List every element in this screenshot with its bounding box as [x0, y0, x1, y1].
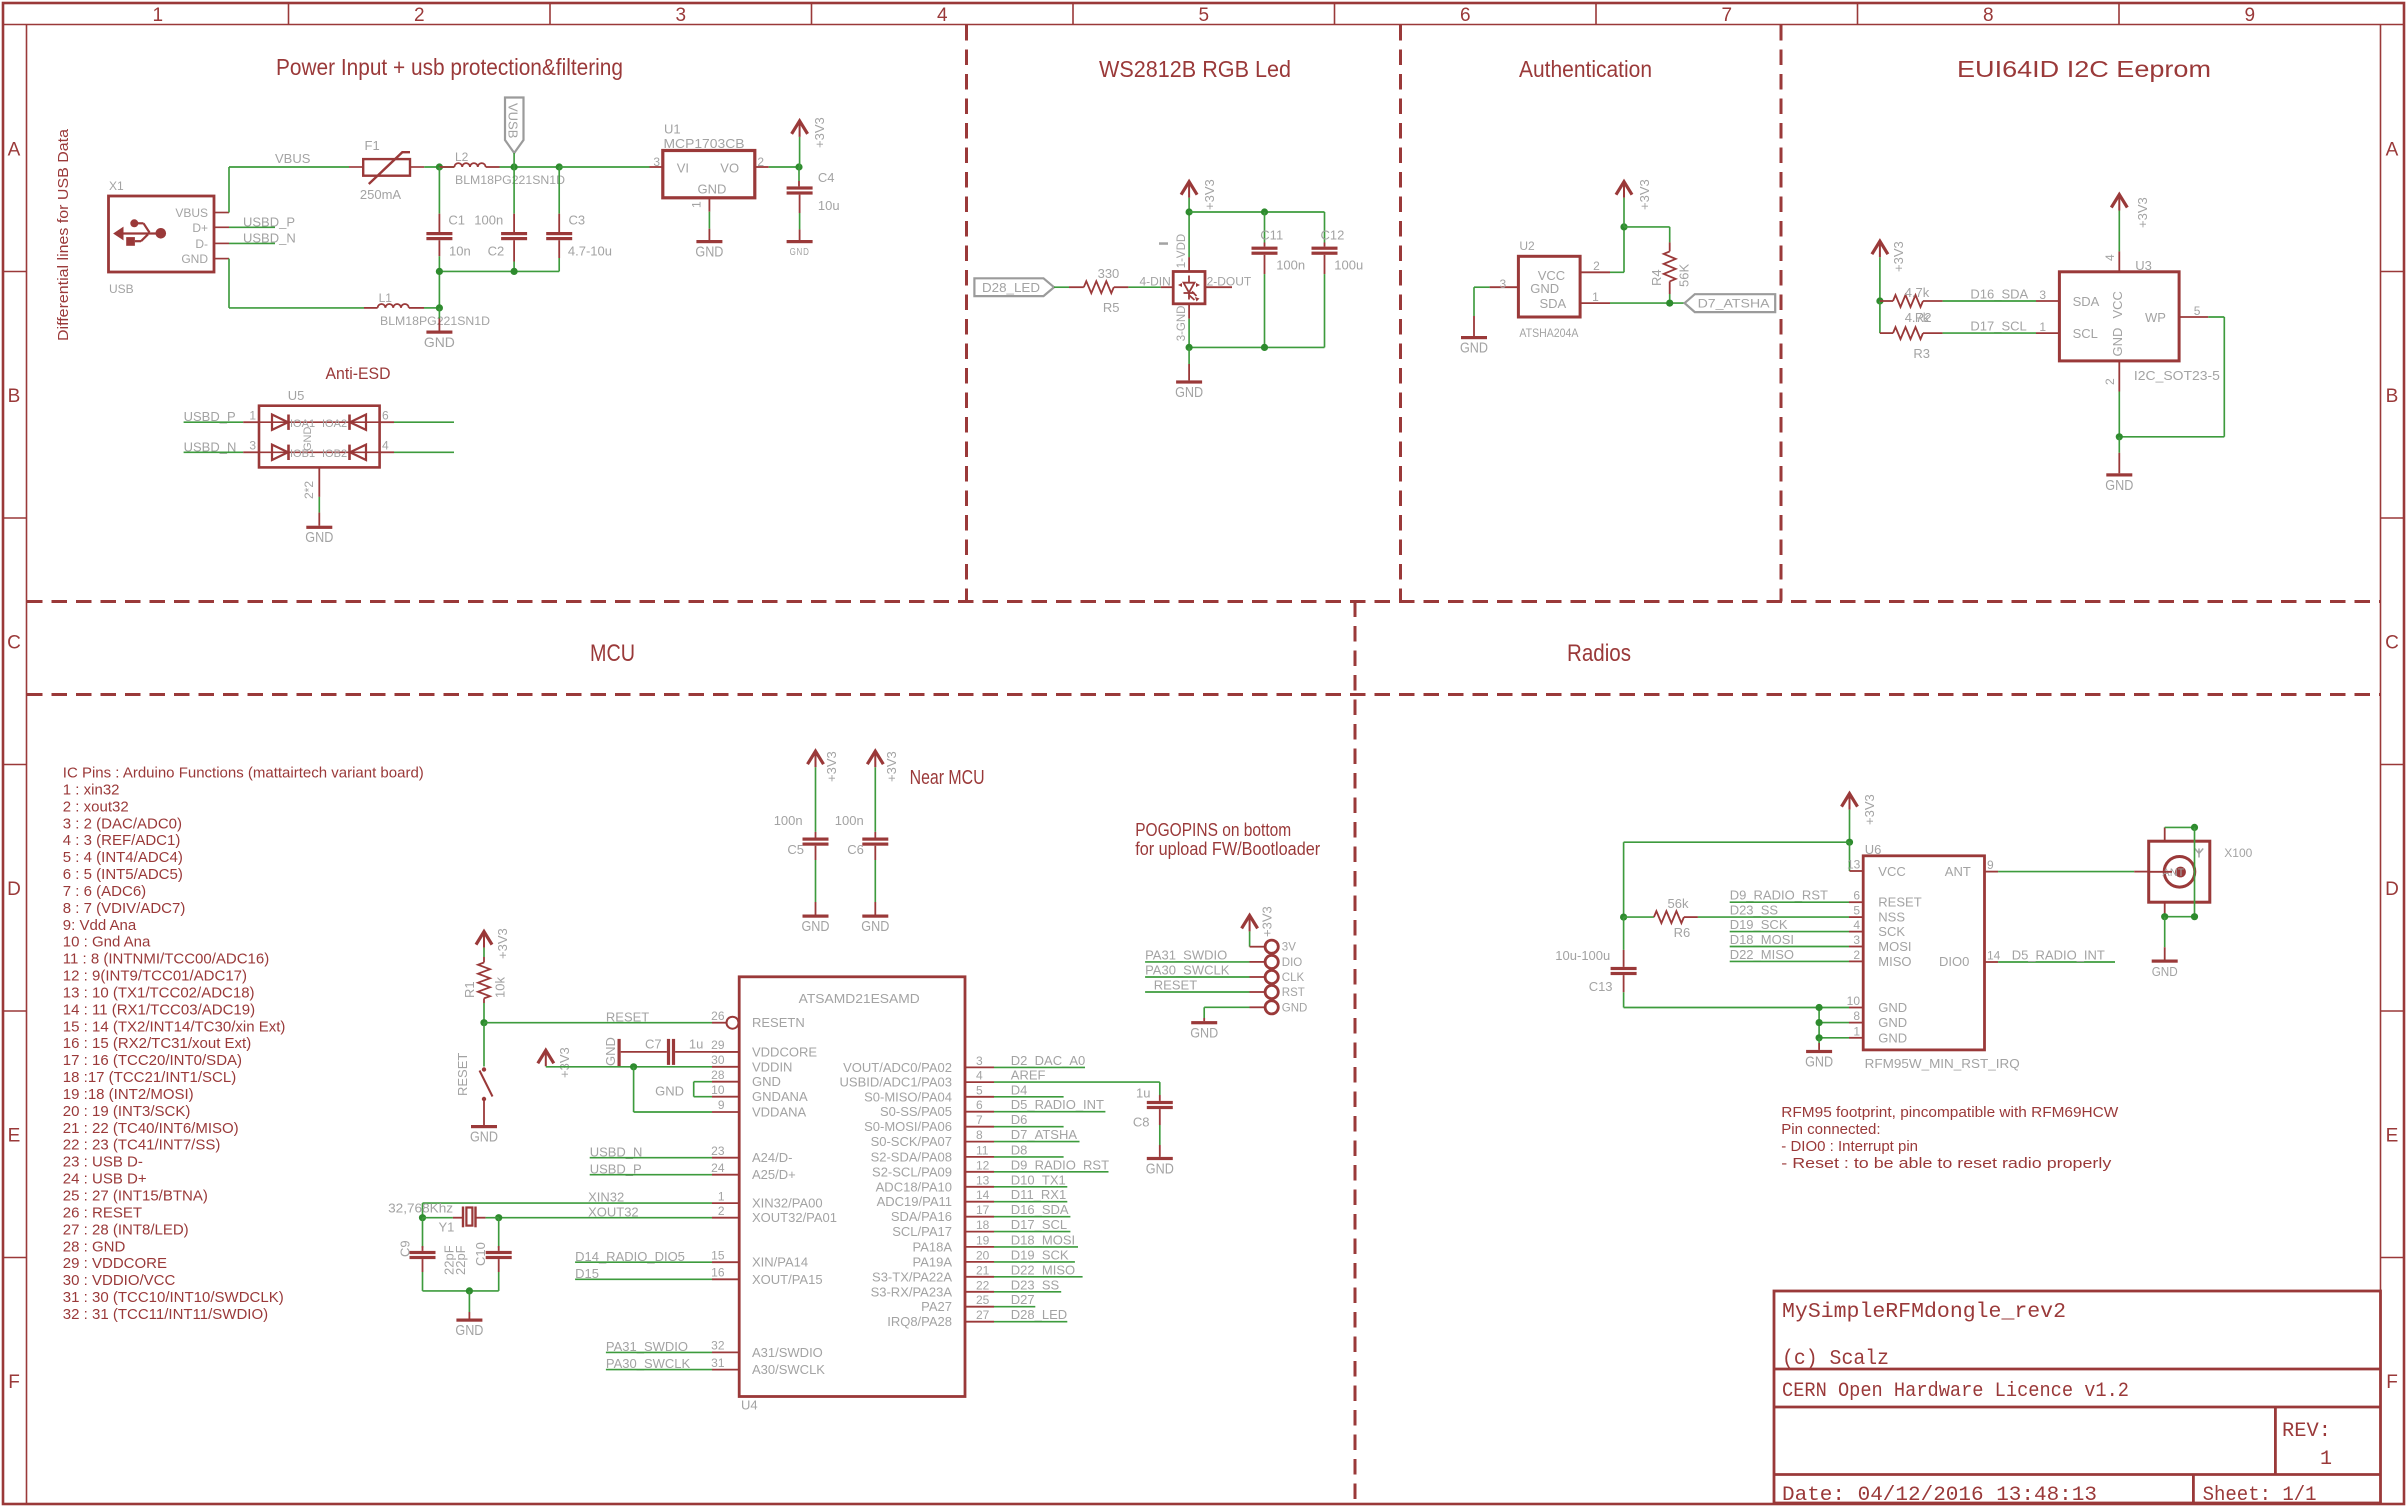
svg-text:Near MCU: Near MCU — [910, 767, 985, 789]
MCU U4 box — [739, 977, 965, 1397]
svg-text:BLM18PG221SN1D: BLM18PG221SN1D — [455, 173, 565, 187]
svg-text:C: C — [2385, 632, 2399, 653]
svg-text:2: 2 — [2103, 378, 2117, 385]
crystal Y1 — [423, 1217, 453, 1219]
junction U6 vcc — [1846, 839, 1853, 846]
svg-text:D9_RADIO_RST: D9_RADIO_RST — [1011, 1157, 1109, 1172]
svg-text:10: 10 — [1847, 994, 1861, 1008]
ground GND (C8) — [1147, 1157, 1173, 1160]
wire D6 — [994, 1126, 1064, 1128]
wire D2_DAC_A0 — [994, 1066, 1085, 1068]
svg-text:3: 3 — [675, 5, 686, 26]
svg-text:D+: D+ — [192, 221, 208, 235]
wire USBD_P (mcu) — [590, 1174, 712, 1176]
svg-text:U1: U1 — [664, 122, 681, 137]
svg-text:D22_MISO: D22_MISO — [1730, 947, 1794, 962]
U3 pin 5 WP wire — [2179, 316, 2208, 318]
svg-text:1 : xin32: 1 : xin32 — [63, 781, 120, 798]
wire D8 — [994, 1156, 1064, 1158]
svg-text:3: 3 — [2039, 288, 2046, 302]
svg-text:12: 12 — [976, 1158, 990, 1172]
svg-text:IRQ8/PA28: IRQ8/PA28 — [887, 1314, 952, 1329]
svg-text:31: 31 — [711, 1356, 725, 1370]
svg-text:NSS: NSS — [1878, 910, 1905, 925]
ground GND (crystal) — [456, 1319, 482, 1322]
svg-text:D7_ATSHA: D7_ATSHA — [1011, 1127, 1078, 1142]
svg-text:R6: R6 — [1674, 925, 1691, 940]
power +3V3 (C6) — [867, 751, 883, 764]
ESD array U5 box — [259, 406, 380, 468]
svg-text:ANT: ANT — [1945, 864, 1971, 879]
svg-text:17 : 16 (TCC20/INT0/SDA): 17 : 16 (TCC20/INT0/SDA) — [63, 1052, 242, 1069]
capacitor C10 — [498, 1218, 500, 1248]
ground GND (L1) — [426, 331, 452, 334]
wire AREF — [994, 1081, 1160, 1083]
capacitor C12 — [1324, 212, 1326, 243]
junction C3 node — [556, 163, 563, 170]
svg-text:U5: U5 — [288, 388, 305, 403]
svg-text:VOUT/ADC0/PA02: VOUT/ADC0/PA02 — [843, 1060, 952, 1075]
svg-text:18: 18 — [976, 1218, 990, 1232]
svg-text:3: 3 — [653, 155, 660, 169]
wire D7_ATSHA — [994, 1141, 1080, 1143]
junction LED gnd — [1186, 344, 1193, 351]
junction C11 bottom — [1261, 344, 1268, 351]
ground GND (U6) — [1806, 1050, 1832, 1053]
section divider vertical mcu/radios — [1354, 602, 1357, 1505]
wire D17_SCL — [1943, 332, 2036, 334]
svg-text:C3: C3 — [569, 213, 586, 228]
svg-text:6: 6 — [382, 409, 389, 423]
svg-text:RFM95W_MIN_RST_IRQ: RFM95W_MIN_RST_IRQ — [1865, 1056, 2020, 1071]
svg-text:XOUT32/PA01: XOUT32/PA01 — [752, 1210, 837, 1225]
svg-text:U2: U2 — [1519, 239, 1535, 253]
wire pogo GND — [1250, 1006, 1265, 1008]
wire D19_SCK — [994, 1261, 1075, 1263]
wire USBD_P stub — [229, 226, 275, 228]
svg-text:+3V3: +3V3 — [557, 1047, 572, 1078]
svg-text:4: 4 — [2103, 254, 2117, 261]
wire D9_RADIO_RST (radio) — [1730, 901, 1849, 903]
wire +3V3 to R4 — [1624, 226, 1670, 228]
power +3V3 (pogo) — [1242, 915, 1258, 928]
svg-text:VDDIN: VDDIN — [752, 1059, 792, 1074]
svg-text:DIO0: DIO0 — [1939, 954, 1969, 969]
junction RESET — [480, 1019, 487, 1026]
capacitor C9 — [422, 1218, 424, 1248]
svg-text:ANT: ANT — [2162, 867, 2184, 879]
section divider horizontal upper — [27, 600, 2380, 603]
wire ANT into X100 — [2134, 871, 2149, 873]
junction U6 gnd 8 — [1816, 1019, 1823, 1026]
wire D22_MISO (radio) — [1730, 960, 1849, 962]
junction VBUS C1 — [436, 163, 443, 170]
wire U5 right B — [380, 451, 394, 453]
svg-text:A: A — [8, 139, 21, 160]
svg-text:25: 25 — [976, 1293, 990, 1307]
wire crystal gnd down — [468, 1291, 470, 1312]
svg-text:GND: GND — [1878, 1000, 1907, 1015]
svg-text:31 : 30 (TCC10/INT10/SWDCLK): 31 : 30 (TCC10/INT10/SWDCLK) — [63, 1289, 284, 1306]
svg-text:14 : 11 (RX1/TCC03/ADC19): 14 : 11 (RX1/TCC03/ADC19) — [63, 1001, 255, 1018]
capacitor C6 — [874, 832, 876, 838]
svg-text:SDA/PA16: SDA/PA16 — [891, 1209, 952, 1224]
svg-text:B: B — [8, 386, 21, 407]
svg-text:A25/D+: A25/D+ — [752, 1167, 796, 1182]
wire VBUS vertical from X1 — [228, 167, 230, 213]
svg-text:1u: 1u — [689, 1037, 703, 1052]
svg-text:MCU: MCU — [590, 640, 635, 667]
svg-text:XOUT/PA15: XOUT/PA15 — [752, 1272, 823, 1287]
wire PA31_SWDIO (mcu) — [606, 1351, 712, 1353]
svg-text:SCL/PA17: SCL/PA17 — [892, 1224, 952, 1239]
svg-text:28 : GND: 28 : GND — [63, 1238, 126, 1255]
svg-text:Pin connected:: Pin connected: — [1781, 1121, 1880, 1138]
svg-text:GND: GND — [1805, 1053, 1833, 1070]
svg-text:U3: U3 — [2135, 258, 2152, 273]
svg-text:1: 1 — [1853, 1024, 1860, 1038]
wire U6 gnd down — [1818, 1038, 1820, 1043]
svg-text:1: 1 — [2320, 1448, 2332, 1471]
svg-text:+3V3: +3V3 — [884, 751, 899, 782]
junction VDDIN/VDDANA — [630, 1063, 637, 1070]
wire VCC bus left — [1624, 841, 1850, 843]
svg-text:32: 32 — [711, 1339, 725, 1353]
svg-text:+3V3: +3V3 — [1862, 794, 1877, 825]
svg-text:VO: VO — [720, 161, 739, 176]
svg-text:GND: GND — [790, 246, 810, 258]
svg-text:1: 1 — [249, 409, 256, 423]
svg-text:22pF: 22pF — [453, 1245, 468, 1275]
capacitor C1 — [438, 167, 440, 214]
power +3V3 (R1) — [476, 932, 492, 945]
ground GND (pogo) — [1191, 1021, 1217, 1024]
junction crystal right — [495, 1214, 502, 1221]
svg-text:15: 15 — [711, 1248, 725, 1262]
svg-text:9: 9 — [1987, 858, 1994, 872]
resistor R1 — [483, 957, 485, 963]
svg-text:3: 3 — [1500, 277, 1507, 291]
svg-text:GND: GND — [455, 1322, 483, 1339]
svg-text:D16_SDA: D16_SDA — [1970, 287, 2028, 302]
svg-text:Authentication: Authentication — [1519, 56, 1652, 82]
wire R4 to SDA — [1669, 281, 1671, 294]
resistor R5 — [1084, 281, 1114, 293]
svg-text:D17_SCL: D17_SCL — [1011, 1217, 1067, 1232]
svg-text:+3V3: +3V3 — [1891, 241, 1906, 272]
svg-text:C7: C7 — [645, 1037, 662, 1052]
svg-text:SCL: SCL — [2073, 326, 2098, 341]
svg-text:C4: C4 — [818, 170, 835, 185]
svg-text:DIO: DIO — [1282, 957, 1303, 969]
svg-text:11 : 8 (INTNMI/TCC00/ADC16): 11 : 8 (INTNMI/TCC00/ADC16) — [63, 951, 269, 968]
svg-text:4: 4 — [382, 439, 389, 453]
svg-text:IOB2: IOB2 — [322, 448, 347, 460]
svg-text:VCC: VCC — [2110, 291, 2125, 318]
svg-text:GND: GND — [861, 918, 889, 935]
svg-text:D23_SS: D23_SS — [1730, 903, 1779, 918]
svg-text:EUI64ID I2C Eeprom: EUI64ID I2C Eeprom — [1957, 56, 2211, 82]
junction U6 gnd 1 — [1816, 1034, 1823, 1041]
USB connector X1 trident icon — [114, 219, 166, 246]
svg-text:F1: F1 — [365, 138, 380, 153]
U4 right pin stubs and numbers — [965, 1066, 994, 1068]
svg-text:D6: D6 — [1011, 1112, 1028, 1127]
wire USBD_P to U5 — [184, 421, 244, 423]
wire VDDIN — [546, 1066, 712, 1068]
svg-text:1: 1 — [718, 1189, 725, 1203]
svg-text:VCC: VCC — [1878, 864, 1905, 879]
wire D28_LED to R5 — [1054, 286, 1069, 288]
svg-text:C12: C12 — [1321, 228, 1345, 243]
wire D23_SS (radio) — [1698, 916, 1849, 918]
wire D4 — [994, 1096, 1064, 1098]
radio module U6 box — [1863, 856, 1984, 1050]
svg-text:Anti-ESD: Anti-ESD — [326, 364, 391, 383]
svg-text:D17_SCL: D17_SCL — [1970, 319, 2026, 334]
svg-text:U6: U6 — [1865, 842, 1882, 857]
ground GND (X100) — [2152, 960, 2178, 963]
wire pogo RST — [1145, 991, 1249, 993]
U6 DIO0 pin wire — [1985, 961, 1999, 963]
ground GND (C5) — [803, 915, 829, 918]
svg-text:Power Input + usb protection&f: Power Input + usb protection&filtering — [276, 54, 623, 80]
U3 pin 4 VCC wire — [2118, 251, 2120, 271]
svg-text:ADC19/PA11: ADC19/PA11 — [877, 1194, 952, 1209]
svg-text:VDDCORE: VDDCORE — [752, 1044, 817, 1059]
svg-text:L1: L1 — [379, 291, 393, 305]
svg-text:R1: R1 — [462, 981, 477, 998]
wire D16_SDA — [1943, 300, 2036, 302]
svg-text:D19_SCK: D19_SCK — [1730, 917, 1788, 932]
svg-text:10u-100u: 10u-100u — [1555, 948, 1610, 963]
capacitor C8 — [1159, 1082, 1161, 1095]
junction X100 bottom 1 — [2161, 913, 2168, 920]
U5 diodes row A — [259, 421, 380, 423]
wire L2 to VUSB junction — [500, 166, 560, 168]
svg-text:100n: 100n — [774, 813, 803, 828]
ground GND (U3) — [2106, 473, 2132, 476]
svg-text:4 : 3 (REF/ADC1): 4 : 3 (REF/ADC1) — [63, 832, 181, 849]
title block frame — [1774, 1291, 2381, 1503]
svg-text:REV:: REV: — [2282, 1420, 2331, 1443]
wire USBD_N to U5 — [184, 451, 244, 453]
junction U2 vcc — [1620, 223, 1627, 230]
svg-text:C5: C5 — [787, 842, 804, 857]
svg-text:C2: C2 — [488, 244, 505, 259]
svg-text:14: 14 — [1987, 949, 2001, 963]
wire +3V3 bus to C11 C12 — [1189, 211, 1324, 213]
svg-text:22: 22 — [976, 1278, 990, 1292]
svg-text:26: 26 — [711, 1009, 725, 1023]
svg-text:7: 7 — [976, 1113, 983, 1127]
power flag VUSB — [505, 98, 524, 154]
svg-text:E: E — [8, 1125, 21, 1146]
U6 ANT pin wire — [1985, 871, 1999, 873]
X100 antenna glyph — [2195, 849, 2203, 858]
svg-text:- Reset : to be able to reset: - Reset : to be able to reset radio prop… — [1781, 1155, 2112, 1172]
junction SDA R4 — [1666, 300, 1673, 307]
svg-text:2: 2 — [414, 5, 425, 26]
svg-text:3: 3 — [976, 1054, 983, 1068]
svg-text:C13: C13 — [1589, 979, 1613, 994]
svg-text:20: 20 — [976, 1248, 990, 1262]
svg-text:4: 4 — [976, 1069, 983, 1083]
wire U5 GND pin — [318, 467, 320, 497]
svg-text:WP: WP — [2145, 310, 2166, 325]
svg-text:R4: R4 — [1649, 269, 1664, 286]
svg-text:GND: GND — [1530, 281, 1559, 296]
svg-text:C8: C8 — [1133, 1114, 1150, 1129]
svg-text:30: 30 — [711, 1053, 725, 1067]
svg-text:2: 2 — [1593, 259, 1600, 273]
svg-text:3: 3 — [249, 439, 256, 453]
svg-text:GND: GND — [698, 181, 727, 196]
svg-text:A: A — [2386, 139, 2399, 160]
svg-text:PA30_SWCLK: PA30_SWCLK — [1145, 963, 1230, 978]
svg-text:B: B — [2386, 386, 2399, 407]
svg-text:9: 9 — [718, 1098, 725, 1112]
svg-text:9: Vdd Ana: 9: Vdd Ana — [63, 917, 137, 934]
svg-text:E: E — [2386, 1125, 2399, 1146]
svg-text:15 : 14 (TX2/INT14/TC30/xin Ex: 15 : 14 (TX2/INT14/TC30/xin Ext) — [63, 1018, 286, 1035]
voltage regulator U1 box — [663, 151, 755, 198]
wire U1 GND pin — [708, 212, 710, 229]
junction VUSB — [510, 163, 517, 170]
svg-text:C1: C1 — [448, 213, 465, 228]
wire RESET to U4 — [484, 1022, 712, 1024]
svg-text:1: 1 — [152, 5, 163, 26]
svg-text:GND: GND — [1460, 340, 1488, 357]
svg-text:GND: GND — [752, 1074, 781, 1089]
svg-text:- DIO0 : Interrupt pin: - DIO0 : Interrupt pin — [1781, 1138, 1918, 1155]
capacitor C4 — [798, 167, 800, 181]
svg-text:PA19A: PA19A — [912, 1254, 952, 1269]
svg-text:S0-MISO/PA04: S0-MISO/PA04 — [864, 1089, 952, 1104]
svg-text:D4: D4 — [1011, 1082, 1028, 1097]
wire pogo CLK — [1145, 976, 1249, 978]
svg-text:USBID/ADC1/PA03: USBID/ADC1/PA03 — [840, 1075, 952, 1090]
U1 pin stubs and numbers — [650, 166, 663, 168]
inductor L1 — [364, 307, 378, 309]
wire D9_RADIO_RST — [994, 1171, 1109, 1173]
wire D10_TX1 — [994, 1186, 1067, 1188]
svg-text:GNDANA: GNDANA — [752, 1089, 808, 1104]
svg-text:SDA: SDA — [2073, 294, 2100, 309]
svg-text:5: 5 — [976, 1083, 983, 1097]
svg-text:23 : USB D-: 23 : USB D- — [63, 1154, 143, 1171]
auth chip U2 box — [1518, 256, 1580, 317]
svg-text:25 : 27 (INT15/BTNA): 25 : 27 (INT15/BTNA) — [63, 1188, 208, 1205]
svg-text:2: 2 — [1853, 948, 1860, 962]
wire U1 VO to +3V3/C4 — [769, 166, 799, 168]
svg-text:18 :17 (TCC21/INT1/SCL): 18 :17 (TCC21/INT1/SCL) — [63, 1069, 236, 1086]
wire LED ground bus — [1189, 346, 1324, 348]
junction cap bus 2 — [510, 268, 517, 275]
svg-text:8: 8 — [976, 1128, 983, 1142]
LED GND pin wire — [1188, 304, 1190, 319]
svg-text:A24/D-: A24/D- — [752, 1150, 792, 1165]
junction R6 C13 — [1620, 914, 1627, 921]
svg-text:20 : 19 (INT3/SCK): 20 : 19 (INT3/SCK) — [63, 1103, 191, 1120]
svg-text:for upload FW/Bootloader: for upload FW/Bootloader — [1135, 839, 1320, 859]
U5 diodes row B — [259, 451, 380, 453]
X100 inner circle — [2164, 857, 2195, 888]
svg-text:C9: C9 — [397, 1240, 412, 1257]
svg-text:GND: GND — [2105, 477, 2133, 494]
junction R2 node — [1876, 297, 1883, 304]
svg-text:GND: GND — [305, 529, 333, 546]
svg-text:S3-TX/PA22A: S3-TX/PA22A — [872, 1269, 952, 1284]
svg-text:GND: GND — [470, 1129, 498, 1146]
inductor L2 — [439, 166, 454, 168]
wire X100 gnd down — [2164, 917, 2166, 948]
wire D11_RX1 — [994, 1201, 1067, 1203]
svg-text:PA18A: PA18A — [912, 1239, 952, 1254]
svg-text:10 : Gnd Ana: 10 : Gnd Ana — [63, 934, 151, 951]
svg-text:26 : RESET: 26 : RESET — [63, 1204, 142, 1221]
fuse F1 — [349, 166, 363, 168]
svg-text:S2-SCL/PA09: S2-SCL/PA09 — [872, 1164, 952, 1179]
svg-text:1u: 1u — [1136, 1085, 1150, 1100]
svg-text:I2C_SOT23-5: I2C_SOT23-5 — [2134, 368, 2220, 383]
svg-text:D5_RADIO_INT: D5_RADIO_INT — [2012, 948, 2105, 963]
svg-text:S3-RX/PA23A: S3-RX/PA23A — [871, 1284, 953, 1299]
svg-text:5: 5 — [1198, 5, 1209, 26]
svg-text:U4: U4 — [741, 1398, 758, 1413]
svg-text:ADC18/PA10: ADC18/PA10 — [876, 1179, 952, 1194]
wire VBUS horizontal — [229, 166, 349, 168]
svg-text:WS2812B RGB Led: WS2812B RGB Led — [1099, 56, 1291, 82]
svg-text:19: 19 — [976, 1233, 990, 1247]
svg-text:+3V3: +3V3 — [812, 117, 827, 148]
svg-text:2*2: 2*2 — [302, 481, 316, 499]
junction X100 bottom 2 — [2191, 913, 2198, 920]
wire RESET to switch — [483, 1023, 485, 1067]
svg-text:27: 27 — [976, 1308, 990, 1322]
svg-text:XIN32/PA00: XIN32/PA00 — [752, 1196, 823, 1211]
svg-text:D7_ATSHA: D7_ATSHA — [1698, 297, 1770, 311]
svg-text:1: 1 — [2039, 320, 2046, 334]
U2 pin 2 wire VCC — [1580, 271, 1610, 273]
wire D5_RADIO_INT — [994, 1111, 1105, 1113]
wire capacitor ground bus — [439, 270, 559, 272]
wire U5 right A — [380, 421, 394, 423]
resistor R4 — [1664, 251, 1676, 281]
junction C11 top — [1261, 208, 1268, 215]
svg-text:10u: 10u — [818, 198, 840, 213]
svg-text:10: 10 — [711, 1083, 725, 1097]
svg-text:Y1: Y1 — [439, 1220, 455, 1235]
capacitor C7 — [621, 1051, 667, 1053]
svg-text:22 : 23 (TC41/INT7/SS): 22 : 23 (TC41/INT7/SS) — [63, 1137, 221, 1154]
wire F1 to L2 — [424, 166, 454, 168]
svg-text:D27: D27 — [1011, 1292, 1035, 1307]
svg-text:27 : 28 (INT8/LED): 27 : 28 (INT8/LED) — [63, 1221, 189, 1238]
capacitor C11 — [1264, 212, 1266, 243]
svg-text:D19_SCK: D19_SCK — [1011, 1247, 1069, 1262]
wire D19_SCK (radio) — [1730, 931, 1849, 933]
junction U3 gnd — [2116, 433, 2123, 440]
svg-text:RESET: RESET — [1154, 978, 1197, 993]
svg-text:D9_RADIO_RST: D9_RADIO_RST — [1730, 888, 1828, 903]
svg-text:C11: C11 — [1260, 228, 1283, 243]
wire L1 node down — [438, 308, 440, 319]
svg-text:GND: GND — [655, 1084, 684, 1099]
svg-text:1: 1 — [690, 201, 704, 208]
ground GND (C4) small — [787, 240, 813, 243]
svg-text:4.7k: 4.7k — [1905, 285, 1930, 300]
